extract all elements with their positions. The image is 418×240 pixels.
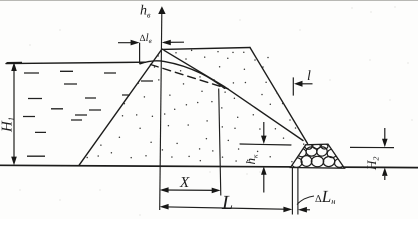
dimension delta-l_v (crest erosion width) <box>118 40 184 64</box>
water surface line <box>6 62 146 63</box>
unit-width marker l with arrow <box>293 77 312 95</box>
extension line at scour end x=219 <box>219 89 221 196</box>
extension line of delta-l_v at curve start <box>139 43 141 64</box>
riprap cobble stones <box>291 143 345 167</box>
dimension L (total length) <box>160 204 293 212</box>
top page edge <box>0 0 418 1</box>
upstream slope of dam <box>79 49 162 165</box>
leader line to label <box>297 196 314 205</box>
toe water surface line (h_k level) <box>240 144 291 145</box>
dimension H1 (upstream water depth) <box>7 62 23 165</box>
scour hump curve over crest <box>140 61 225 89</box>
water surface short dashes <box>23 71 153 156</box>
dashed original crest profile <box>151 65 229 89</box>
ground base line <box>0 165 418 167</box>
dimension H2 (downstream water depth) <box>350 128 394 180</box>
wave height arrow h_v <box>158 6 165 14</box>
downstream face of dam <box>250 48 308 144</box>
stipple dots of dam body fill <box>87 50 304 161</box>
vertical axis line through upstream crest corner <box>160 13 162 210</box>
svg-text:L: L <box>221 192 233 214</box>
dam crest line <box>162 48 250 50</box>
dimension h_k (critical depth at toe) <box>261 122 267 193</box>
svg-text:X: X <box>179 175 190 191</box>
label H2 (rotated) <box>364 157 381 171</box>
label h_k (rotated) <box>243 154 260 165</box>
svg-text:l: l <box>307 69 311 84</box>
eroded downstream profile line <box>164 50 303 140</box>
dimension delta-L_n with outside arrow <box>297 196 314 213</box>
dimension X (scour length) <box>160 187 221 193</box>
label H1 (rotated) <box>0 117 16 133</box>
extension lines at downstream toe <box>292 167 298 215</box>
